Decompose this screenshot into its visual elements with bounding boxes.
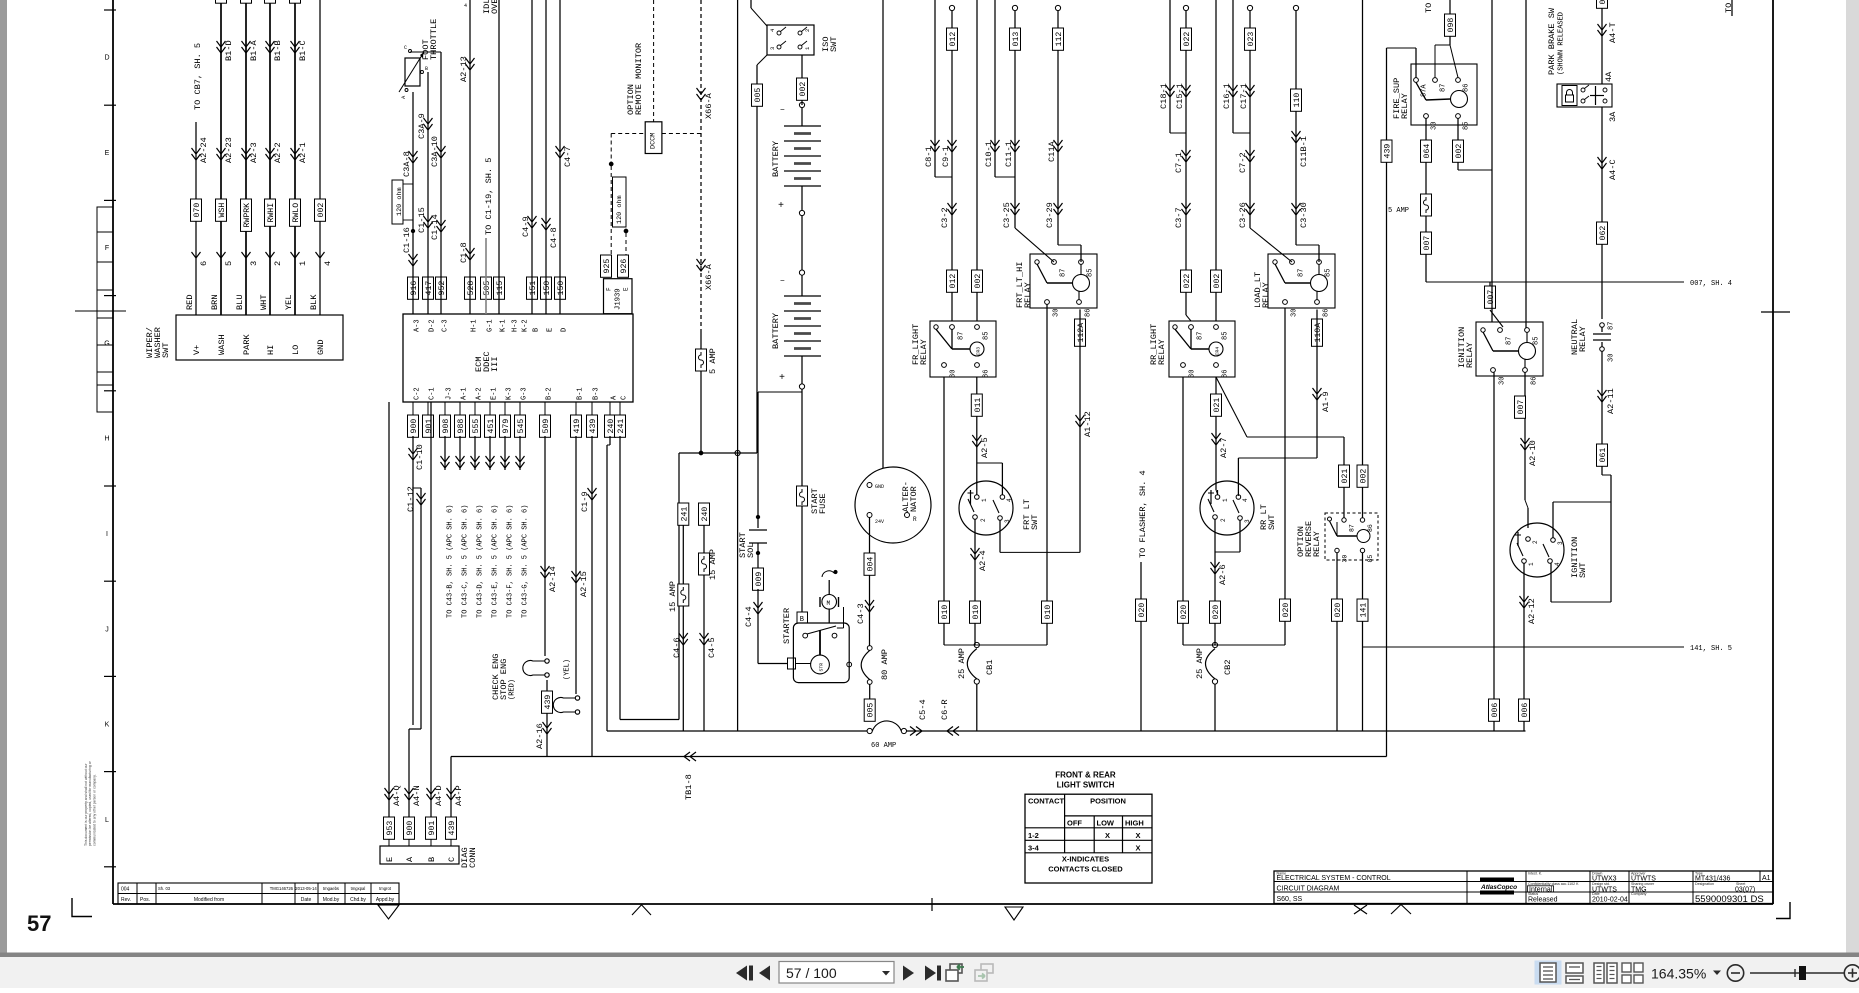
svg-text:C3A-8: C3A-8 — [402, 151, 412, 177]
svg-text:A2-24: A2-24 — [199, 137, 209, 163]
svg-text:CR4: CR4 — [1215, 347, 1221, 356]
svg-text:Released: Released — [1528, 897, 1558, 904]
svg-text:X: X — [1135, 843, 1140, 852]
svg-text:B: B — [425, 66, 428, 72]
svg-text:X66-A: X66-A — [704, 263, 714, 290]
svg-text:30: 30 — [950, 370, 958, 378]
svg-text:006: 006 — [1521, 703, 1530, 718]
svg-text:Sh. 03: Sh. 03 — [158, 886, 171, 891]
svg-text:2010-02-04: 2010-02-04 — [1592, 897, 1628, 904]
svg-text:Appd.by: Appd.by — [376, 897, 395, 903]
svg-text:020: 020 — [1180, 605, 1189, 620]
svg-text:A2-13: A2-13 — [459, 56, 469, 82]
svg-text:LO: LO — [291, 345, 301, 355]
svg-text:A2-23: A2-23 — [224, 137, 234, 163]
svg-text:TO C43-D, SH. 5 (APC SH. 6): TO C43-D, SH. 5 (APC SH. 6) — [477, 505, 485, 618]
svg-text:Intest. K.: Intest. K. — [1528, 872, 1542, 876]
svg-text:007: 007 — [1517, 400, 1526, 415]
svg-text:005: 005 — [754, 88, 763, 103]
svg-text:3: 3 — [249, 261, 259, 266]
svg-text:A4-Q: A4-Q — [392, 785, 402, 806]
svg-text:30: 30 — [1608, 354, 1616, 362]
svg-text:A2-15: A2-15 — [579, 571, 589, 597]
svg-text:2013-05-14: 2013-05-14 — [295, 886, 317, 891]
svg-text:D-2: D-2 — [429, 319, 437, 332]
svg-text:2: 2 — [804, 29, 811, 32]
svg-text:020: 020 — [1282, 603, 1291, 618]
svg-text:1: 1 — [981, 498, 988, 502]
svg-text:Rev.: Rev. — [121, 897, 131, 903]
svg-text:Chd.by: Chd.by — [350, 897, 366, 903]
svg-text:2: 2 — [1532, 540, 1539, 544]
svg-text:GND: GND — [875, 484, 884, 490]
svg-text:C4-8: C4-8 — [549, 227, 559, 248]
svg-text:K: K — [105, 722, 110, 729]
svg-text:G-3: G-3 — [521, 387, 529, 400]
svg-text:C4-4: C4-4 — [744, 606, 754, 627]
svg-text:30: 30 — [1431, 122, 1439, 130]
svg-text:BRN: BRN — [210, 295, 220, 310]
svg-text:H: H — [104, 436, 109, 443]
svg-text:2: 2 — [980, 518, 987, 522]
svg-text:3: 3 — [769, 47, 776, 50]
svg-text:012: 012 — [949, 274, 958, 289]
svg-text:010: 010 — [1044, 605, 1053, 620]
svg-text:TO CB7, SH. 5: TO CB7, SH. 5 — [193, 43, 203, 110]
svg-text:5590009301 DS: 5590009301 DS — [1695, 894, 1764, 905]
svg-text:+: + — [778, 201, 784, 212]
svg-text:87: 87 — [1506, 337, 1514, 345]
svg-text:953: 953 — [386, 821, 395, 836]
svg-text:C-2: C-2 — [414, 387, 422, 400]
svg-text:070: 070 — [193, 203, 202, 218]
svg-text:B1-C: B1-C — [298, 40, 308, 61]
svg-text:86: 86 — [1531, 377, 1539, 385]
svg-text:F: F — [105, 245, 109, 252]
svg-text:STR: STR — [819, 663, 825, 672]
svg-text:STARTER: STARTER — [782, 608, 792, 644]
svg-text:C: C — [447, 857, 457, 862]
svg-text:002: 002 — [799, 82, 808, 97]
svg-text:A2-1: A2-1 — [298, 142, 308, 163]
svg-text:87: 87 — [1348, 524, 1355, 532]
svg-text:A: A — [405, 856, 415, 862]
svg-text:120 ohm: 120 ohm — [616, 195, 624, 224]
svg-text:002: 002 — [1360, 469, 1369, 484]
svg-text:A2-2: A2-2 — [273, 142, 283, 163]
svg-text:−: − — [780, 106, 785, 115]
svg-text:SWT: SWT — [1030, 515, 1040, 530]
svg-text:112A: 112A — [1077, 323, 1086, 343]
svg-text:011: 011 — [974, 398, 983, 413]
svg-text:OFF: OFF — [1067, 818, 1082, 827]
svg-text:ELECTRICAL SYSTEM - CONTROL: ELECTRICAL SYSTEM - CONTROL — [1277, 875, 1391, 882]
svg-text:141: 141 — [1360, 603, 1369, 618]
svg-text:023: 023 — [1247, 32, 1256, 47]
svg-text:A2-7: A2-7 — [1219, 437, 1229, 458]
svg-text:D: D — [561, 328, 569, 332]
svg-text:1-2: 1-2 — [1028, 831, 1039, 840]
svg-text:007, SH. 4: 007, SH. 4 — [1690, 280, 1732, 288]
svg-text:87A: 87A — [1421, 84, 1429, 97]
svg-text:30: 30 — [1053, 309, 1061, 317]
svg-text:4: 4 — [1554, 562, 1561, 566]
svg-text:15 AMP: 15 AMP — [668, 581, 678, 612]
svg-text:CB2: CB2 — [1223, 660, 1233, 675]
svg-text:900: 900 — [406, 821, 415, 836]
svg-text:4A: 4A — [1604, 71, 1614, 82]
svg-text:528: 528 — [467, 281, 476, 296]
svg-text:(SHOWN RELEASED: (SHOWN RELEASED — [1558, 12, 1566, 75]
svg-text:6: 6 — [199, 261, 209, 266]
svg-text:RWPRK: RWPRK — [243, 203, 252, 228]
svg-text:4: 4 — [323, 261, 333, 266]
svg-text:CB1: CB1 — [985, 660, 995, 675]
svg-text:H-3: H-3 — [512, 319, 520, 332]
svg-text:141, SH. 5: 141, SH. 5 — [1690, 645, 1732, 653]
svg-text:G: G — [104, 340, 109, 347]
svg-text:TO FLASHER, SH. 4: TO FLASHER, SH. 4 — [1138, 470, 1148, 558]
svg-text:C1-16: C1-16 — [402, 227, 412, 253]
svg-text:RED: RED — [185, 295, 195, 310]
svg-text:439: 439 — [589, 419, 598, 434]
svg-text:RELAY: RELAY — [1400, 93, 1410, 119]
svg-text:A4-C: A4-C — [1608, 159, 1618, 180]
svg-text:RELAY: RELAY — [919, 339, 929, 365]
svg-text:Confidentiality class acc.1102: Confidentiality class acc.1102 K — [1528, 882, 1579, 886]
svg-text:2: 2 — [273, 261, 283, 266]
svg-text:87: 87 — [958, 332, 966, 340]
svg-text:C5-4: C5-4 — [918, 699, 928, 720]
svg-text:86: 86 — [983, 370, 991, 378]
svg-text:C3-29: C3-29 — [1045, 202, 1055, 228]
svg-text:80 AMP: 80 AMP — [880, 649, 890, 680]
svg-text:85: 85 — [1533, 337, 1541, 345]
svg-text:85: 85 — [1087, 269, 1095, 277]
svg-text:979: 979 — [502, 419, 511, 434]
svg-text:30: 30 — [1499, 377, 1507, 385]
svg-text:communicated to any other pers: communicated to any other person or comp… — [92, 774, 96, 846]
svg-text:TB1-8: TB1-8 — [684, 774, 694, 800]
svg-text:004: 004 — [867, 557, 876, 572]
svg-text:TO C1-19, SH. 5: TO C1-19, SH. 5 — [484, 158, 494, 235]
svg-text:062: 062 — [1599, 226, 1608, 241]
svg-text:RELAY: RELAY — [1157, 339, 1167, 365]
svg-text:C16-1: C16-1 — [1222, 83, 1232, 109]
svg-text:REMOTE MONITOR: REMOTE MONITOR — [634, 43, 644, 115]
svg-text:021: 021 — [1341, 469, 1350, 484]
svg-text:B1-A: B1-A — [249, 40, 259, 61]
svg-text:SWT: SWT — [161, 343, 171, 358]
svg-text:C15-1: C15-1 — [1175, 83, 1185, 109]
svg-text:K-1: K-1 — [500, 319, 508, 332]
svg-text:022: 022 — [1183, 274, 1192, 289]
svg-text:012: 012 — [949, 32, 958, 47]
svg-text:901: 901 — [425, 419, 434, 434]
svg-text:TO: TO — [1424, 3, 1434, 13]
svg-text:004: 004 — [121, 887, 130, 893]
svg-text:FUSE: FUSE — [818, 493, 828, 514]
svg-text:C1-15: C1-15 — [417, 207, 427, 233]
svg-text:B-2: B-2 — [546, 387, 554, 400]
svg-text:TO C43-C, SH. 5 (APC SH. 6): TO C43-C, SH. 5 (APC SH. 6) — [462, 505, 470, 618]
svg-text:Sharing owner: Sharing owner — [1631, 882, 1655, 886]
svg-text:451: 451 — [487, 419, 496, 434]
svg-text:120 ohm: 120 ohm — [396, 187, 404, 216]
svg-text:098: 098 — [1447, 18, 1456, 33]
svg-text:C4-5: C4-5 — [707, 637, 717, 658]
svg-text:Company: Company — [1631, 892, 1647, 896]
svg-text:E: E — [385, 857, 395, 862]
svg-text:240: 240 — [701, 507, 710, 522]
svg-text:C3-7: C3-7 — [1174, 207, 1184, 228]
svg-text:439: 439 — [544, 695, 553, 710]
svg-text:HI: HI — [266, 345, 276, 355]
svg-text:002: 002 — [1455, 144, 1464, 159]
svg-text:010: 010 — [941, 605, 950, 620]
svg-text:B: B — [533, 328, 541, 332]
svg-text:E: E — [547, 328, 555, 332]
svg-text:C9-1: C9-1 — [941, 146, 951, 167]
svg-text:TO C43-F, SH. 5 (APC SH. 6): TO C43-F, SH. 5 (APC SH. 6) — [507, 505, 515, 618]
svg-text:241: 241 — [617, 419, 626, 434]
svg-text:Modified from: Modified from — [194, 897, 224, 903]
svg-text:3: 3 — [1244, 519, 1251, 523]
svg-text:RELAY: RELAY — [1578, 326, 1588, 352]
svg-text:509: 509 — [542, 419, 551, 434]
svg-text:RELAY: RELAY — [1465, 342, 1475, 368]
svg-text:A2-16: A2-16 — [535, 723, 545, 749]
svg-text:C4-6: C4-6 — [672, 637, 682, 658]
svg-text:57 / 100: 57 / 100 — [786, 965, 837, 981]
svg-text:THROTTLE: THROTTLE — [429, 19, 439, 60]
svg-text:A2-4: A2-4 — [978, 550, 988, 571]
svg-text:C3A-10: C3A-10 — [430, 136, 440, 167]
svg-text:C4-9: C4-9 — [521, 216, 531, 237]
svg-text:RELAY: RELAY — [1261, 282, 1271, 308]
svg-text:1: 1 — [298, 261, 308, 266]
svg-text:E-1: E-1 — [491, 387, 499, 400]
svg-text:15 AMP: 15 AMP — [708, 549, 718, 580]
svg-text:B-3: B-3 — [593, 387, 601, 400]
svg-text:901: 901 — [428, 821, 437, 836]
svg-text:AtlasCopco: AtlasCopco — [1480, 884, 1517, 891]
svg-text:C11-1: C11-1 — [1004, 141, 1014, 167]
svg-text:112: 112 — [1055, 32, 1064, 47]
svg-text:X66-A: X66-A — [704, 92, 714, 119]
svg-text:007: 007 — [1423, 236, 1432, 251]
svg-text:A1-12: A1-12 — [1083, 411, 1093, 437]
svg-text:86: 86 — [1222, 370, 1230, 378]
svg-text:2: 2 — [1220, 518, 1227, 522]
svg-text:K-2: K-2 — [522, 319, 530, 332]
svg-text:Sheet: Sheet — [1736, 882, 1745, 886]
svg-text:F: F — [606, 287, 613, 291]
svg-text:G-1: G-1 — [487, 319, 495, 332]
svg-text:1: 1 — [1528, 562, 1535, 566]
svg-text:002: 002 — [974, 274, 983, 289]
svg-text:H-1: H-1 — [471, 319, 479, 332]
svg-text:5 AMP: 5 AMP — [708, 348, 718, 374]
svg-text:C3-30: C3-30 — [1299, 202, 1309, 228]
svg-text:E: E — [623, 287, 630, 291]
svg-text:022: 022 — [1183, 32, 1192, 47]
svg-text:R: R — [913, 516, 917, 523]
svg-text:020: 020 — [1212, 605, 1221, 620]
svg-text:tmgaebs: tmgaebs — [323, 886, 339, 891]
svg-text:S60, SS: S60, SS — [1277, 896, 1303, 903]
svg-text:002: 002 — [317, 203, 326, 218]
svg-text:CONTACT: CONTACT — [1028, 797, 1065, 806]
svg-text:C1-8: C1-8 — [459, 242, 469, 263]
svg-text:164.35%: 164.35% — [1651, 966, 1706, 982]
svg-text:988: 988 — [457, 419, 466, 434]
svg-text:A2-3: A2-3 — [249, 142, 259, 163]
svg-text:57: 57 — [27, 911, 51, 936]
svg-text:C: C — [621, 396, 629, 400]
svg-text:925: 925 — [603, 259, 612, 274]
svg-text:RWLO: RWLO — [292, 203, 301, 223]
svg-text:30: 30 — [1189, 370, 1197, 378]
svg-text:87: 87 — [1197, 332, 1205, 340]
svg-text:009: 009 — [755, 572, 764, 587]
svg-text:115: 115 — [496, 281, 505, 296]
svg-text:C1-14: C1-14 — [430, 214, 440, 240]
svg-text:I: I — [106, 531, 108, 538]
svg-text:505: 505 — [483, 281, 492, 296]
svg-text:A2-10: A2-10 — [1528, 440, 1538, 466]
svg-text:tmgxpal: tmgxpal — [351, 886, 366, 891]
svg-text:A4-N: A4-N — [412, 785, 422, 806]
svg-text:OVERRIDE: OVERRIDE — [490, 0, 500, 14]
svg-text:30: 30 — [1341, 555, 1348, 563]
svg-text:M: M — [827, 600, 831, 607]
svg-text:C11B-1: C11B-1 — [1299, 136, 1309, 167]
svg-text:241: 241 — [680, 507, 689, 522]
svg-text:A-3: A-3 — [414, 319, 422, 332]
svg-text:60 AMP: 60 AMP — [871, 742, 896, 750]
svg-text:−: − — [780, 277, 785, 286]
svg-text:3-4: 3-4 — [1028, 843, 1040, 852]
svg-text:L: L — [105, 817, 109, 824]
svg-text:419: 419 — [573, 419, 582, 434]
svg-text:5 AMP: 5 AMP — [1388, 207, 1409, 215]
svg-text:C1-9: C1-9 — [580, 491, 590, 512]
svg-text:LIGHT SWITCH: LIGHT SWITCH — [1057, 781, 1115, 790]
svg-text:062: 062 — [1599, 0, 1608, 4]
svg-text:X: X — [1105, 831, 1110, 840]
svg-text:021: 021 — [1213, 398, 1222, 413]
svg-text:FRONT & REAR: FRONT & REAR — [1055, 771, 1116, 780]
svg-text:85: 85 — [1222, 332, 1230, 340]
svg-text:4: 4 — [1006, 498, 1013, 502]
svg-text:YEL: YEL — [284, 295, 294, 310]
svg-text:SOL: SOL — [746, 543, 756, 558]
svg-text:010: 010 — [972, 605, 981, 620]
svg-text:061: 061 — [1599, 448, 1608, 463]
svg-text:5: 5 — [224, 261, 234, 266]
svg-text:005: 005 — [867, 703, 876, 718]
svg-text:Pos.: Pos. — [140, 897, 150, 903]
svg-text:E: E — [105, 150, 110, 157]
svg-text:150: 150 — [543, 281, 552, 296]
svg-text:545: 545 — [517, 419, 526, 434]
svg-text:A2-11: A2-11 — [1606, 388, 1616, 414]
svg-text:C6-R: C6-R — [940, 699, 950, 720]
svg-text:87: 87 — [1298, 269, 1306, 277]
svg-text:C11A: C11A — [1047, 141, 1057, 162]
svg-text:III: III — [490, 357, 500, 372]
svg-text:3: 3 — [1004, 519, 1011, 523]
svg-text:110: 110 — [1293, 93, 1302, 108]
svg-text:85: 85 — [1325, 269, 1333, 277]
svg-text:CIRCUIT DIAGRAM: CIRCUIT DIAGRAM — [1277, 886, 1340, 893]
svg-text:TO C43-B, SH. 5 (APC SH. 6): TO C43-B, SH. 5 (APC SH. 6) — [447, 505, 455, 618]
svg-text:C10-1: C10-1 — [984, 141, 994, 167]
svg-text:87: 87 — [1440, 84, 1448, 92]
svg-text:25 AMP: 25 AMP — [1195, 648, 1205, 679]
svg-text:C-1: C-1 — [429, 387, 437, 400]
svg-text:WSH: WSH — [218, 203, 227, 218]
svg-text:B: B — [427, 857, 437, 862]
svg-text:A2-6: A2-6 — [1218, 564, 1228, 585]
svg-text:+: + — [779, 373, 785, 384]
svg-text:013: 013 — [1012, 32, 1021, 47]
svg-text:C3-25: C3-25 — [1002, 202, 1012, 228]
svg-text:002: 002 — [1213, 274, 1222, 289]
svg-text:C7-2: C7-2 — [1238, 152, 1248, 173]
svg-text:C3-2: C3-2 — [940, 207, 950, 228]
svg-text:87: 87 — [1608, 322, 1616, 330]
svg-text:TO C43-E, SH. 5 (APC SH. 6): TO C43-E, SH. 5 (APC SH. 6) — [492, 505, 500, 618]
svg-text:Mod.by: Mod.by — [323, 897, 340, 903]
svg-text:A4-P: A4-P — [454, 785, 464, 806]
svg-text:C1-12: C1-12 — [406, 486, 416, 512]
svg-text:B-1: B-1 — [577, 387, 585, 400]
svg-text:86: 86 — [1463, 84, 1471, 92]
svg-text:BLU: BLU — [235, 295, 245, 310]
svg-text:J1939: J1939 — [615, 288, 623, 310]
svg-text:86: 86 — [1085, 309, 1093, 317]
svg-text:TO C43-G, SH. 5 (APC SH. 6): TO C43-G, SH. 5 (APC SH. 6) — [522, 505, 530, 618]
svg-text:A4-D: A4-D — [434, 785, 444, 806]
svg-text:SWT: SWT — [1578, 563, 1588, 578]
svg-text:NATOR: NATOR — [909, 486, 919, 512]
svg-text:C18-1: C18-1 — [1159, 83, 1169, 109]
svg-text:DCCM: DCCM — [649, 133, 657, 149]
svg-text:WASH: WASH — [217, 334, 227, 355]
svg-text:B1-D: B1-D — [224, 40, 234, 61]
svg-text:CR3: CR3 — [976, 347, 982, 356]
svg-text:BATTERY: BATTERY — [771, 313, 781, 349]
svg-text:BATTERY: BATTERY — [771, 141, 781, 177]
svg-text:900: 900 — [410, 419, 419, 434]
svg-text:PARK BRAKE SW: PARK BRAKE SW — [1547, 7, 1557, 75]
svg-text:A1-9: A1-9 — [1321, 391, 1331, 412]
svg-text:D: D — [104, 55, 109, 62]
svg-text:4: 4 — [464, 3, 467, 9]
svg-text:87: 87 — [1060, 269, 1068, 277]
svg-text:RELAY: RELAY — [1023, 282, 1033, 308]
svg-text:110A: 110A — [1314, 323, 1323, 343]
svg-text:CONN: CONN — [468, 847, 478, 868]
svg-text:BLK: BLK — [309, 294, 319, 310]
svg-text:24V: 24V — [875, 519, 884, 525]
svg-text:(RED): (RED) — [509, 679, 517, 700]
svg-text:C3A-9: C3A-9 — [417, 113, 427, 139]
svg-text:TMG146726: TMG146726 — [270, 886, 294, 891]
svg-text:Date: Date — [301, 897, 312, 903]
